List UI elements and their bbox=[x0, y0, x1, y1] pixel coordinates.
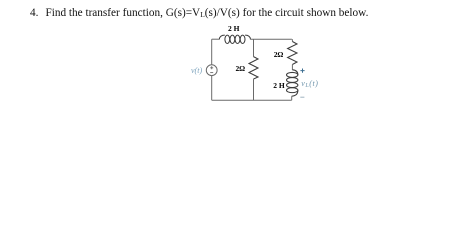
svg-text:2 H: 2 H bbox=[273, 81, 285, 90]
wire: bottom horizontal bbox=[212, 99, 292, 101]
polarity + (vL) bbox=[300, 69, 304, 73]
resistor R1 2Ω (middle) bbox=[249, 57, 258, 79]
wire: middle branch lower bbox=[253, 79, 255, 100]
inductor L1 2H (top) bbox=[219, 35, 250, 43]
svg-text:2Ω: 2Ω bbox=[274, 50, 284, 59]
inductor L2 2H (right) bbox=[287, 70, 298, 96]
wire: right branch between R2 and L2 bbox=[291, 65, 293, 70]
problem statement text bbox=[30, 7, 368, 19]
svg-text:2 H: 2 H bbox=[228, 24, 240, 33]
polarity - (vL) bbox=[300, 96, 304, 98]
wire: right branch top stub bbox=[291, 39, 293, 41]
wire: top right horizontal bbox=[251, 38, 292, 40]
wire: left vertical above source bbox=[211, 39, 213, 65]
wire: middle branch upper bbox=[253, 39, 255, 56]
wire: left vertical below source bbox=[211, 76, 213, 101]
svg-text:vL(t): vL(t) bbox=[301, 79, 318, 89]
svg-text:2Ω: 2Ω bbox=[236, 64, 246, 73]
resistor R2 2Ω (right) bbox=[288, 42, 297, 65]
wire: right branch bottom stub bbox=[291, 96, 293, 100]
svg-text:v(t): v(t) bbox=[191, 66, 202, 75]
wire: top left horizontal bbox=[212, 38, 220, 40]
voltage source V bbox=[206, 65, 217, 76]
